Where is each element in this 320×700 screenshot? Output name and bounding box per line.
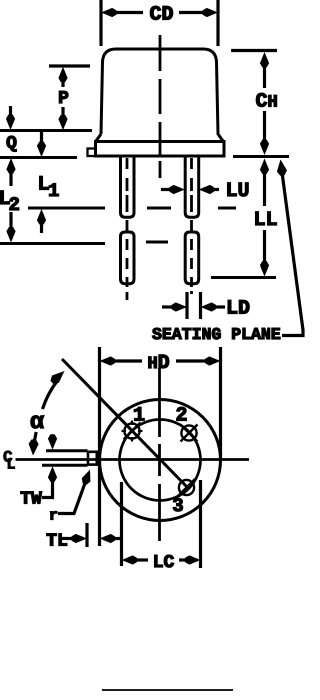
LC extension lines [122, 480, 201, 568]
can flange (header rim) [96, 142, 225, 157]
cap shoulder reference line [0, 129, 92, 132]
dimension LC [122, 555, 201, 567]
lead 1 centerline (dashed) [126, 158, 129, 300]
pin 1 label [134, 407, 144, 420]
dimension CH [231, 51, 277, 156]
lead 1 lower segment [121, 232, 135, 284]
pin 2 [181, 425, 198, 442]
horizontal centerline (bottom view) [16, 458, 250, 461]
pin 2 label [177, 407, 187, 420]
tab leader r [58, 470, 90, 514]
pin 3 [178, 479, 195, 496]
lead end extension line [211, 276, 276, 279]
tab (bottom view) and TW extension lines [42, 451, 97, 465]
lead 1 upper segment [121, 157, 135, 217]
tab (side view) [88, 149, 96, 157]
pin 3 label [173, 498, 183, 511]
seating plane extension (right) [233, 155, 289, 158]
L1 level extension line [28, 207, 236, 210]
centre line symbol [4, 451, 15, 469]
can outline (side view) [96, 49, 223, 141]
dimension L2 [1, 158, 19, 243]
dimension LU [161, 183, 248, 196]
pin 1 [122, 421, 143, 442]
SEATING PLANE label [152, 328, 280, 339]
dimension TL [47, 534, 122, 546]
r label [50, 511, 57, 519]
vertical centerline (bottom view) [158, 368, 161, 541]
dimension P [49, 66, 90, 130]
dimension L1 [37, 132, 59, 233]
seating plane extension (left) [0, 156, 77, 159]
can centerline (dashed) [159, 35, 162, 178]
dimension TW [21, 434, 57, 503]
inner circle (lead circle) [120, 420, 201, 501]
dimension Q [6, 106, 17, 152]
dimension CD [101, 0, 218, 46]
lead 2 centerline (dashed) [190, 158, 193, 294]
tab edge extension (TL) [85, 523, 88, 547]
lead 2 lower segment [185, 232, 199, 284]
dimension LL [256, 159, 277, 277]
alpha label [31, 416, 44, 429]
diagonal through pins 1 and 3 [62, 359, 188, 488]
dimension HD [100, 347, 221, 546]
bottom rule [102, 689, 233, 691]
dimension LD [162, 292, 249, 319]
L2 level extension line [0, 242, 168, 244]
seating plane leader [277, 160, 303, 336]
angle dimension alpha arc [29, 371, 65, 456]
lead 2 upper segment [185, 157, 199, 217]
outer circle (can bottom view) [100, 400, 221, 521]
